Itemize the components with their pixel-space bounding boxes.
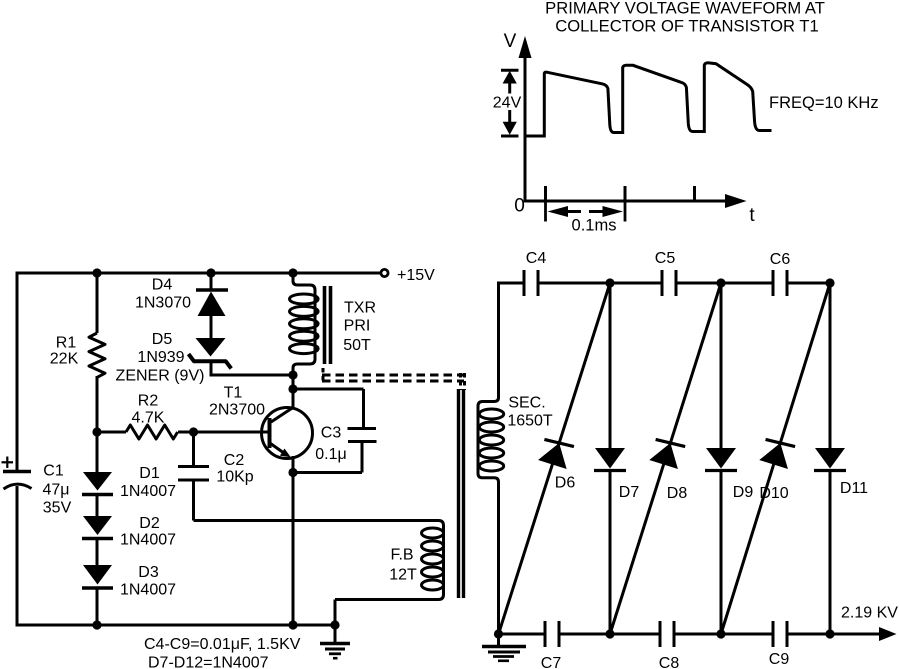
svg-text:D9: D9 bbox=[733, 484, 754, 501]
svg-text:1N4007: 1N4007 bbox=[120, 532, 176, 549]
svg-text:C7: C7 bbox=[541, 655, 562, 669]
svg-text:35V: 35V bbox=[43, 500, 72, 517]
svg-text:12T: 12T bbox=[389, 567, 417, 584]
svg-text:D4: D4 bbox=[152, 277, 173, 294]
svg-text:D7: D7 bbox=[619, 484, 640, 501]
svg-text:0.1μ: 0.1μ bbox=[315, 446, 346, 463]
svg-text:C1: C1 bbox=[43, 463, 64, 480]
svg-text:1N4007: 1N4007 bbox=[120, 582, 176, 599]
svg-text:24V: 24V bbox=[493, 94, 522, 111]
svg-text:2N3700: 2N3700 bbox=[209, 402, 265, 419]
svg-text:4.7K: 4.7K bbox=[132, 410, 165, 427]
svg-text:47μ: 47μ bbox=[42, 482, 69, 499]
svg-text:C4-C9=0.01μF, 1.5KV: C4-C9=0.01μF, 1.5KV bbox=[144, 636, 301, 653]
svg-text:PRI: PRI bbox=[344, 318, 371, 335]
svg-text:D10: D10 bbox=[759, 485, 788, 502]
svg-text:D2: D2 bbox=[139, 515, 160, 532]
svg-text:0: 0 bbox=[514, 196, 525, 217]
svg-text:C8: C8 bbox=[659, 655, 680, 669]
svg-text:COLLECTOR OF TRANSISTOR T1: COLLECTOR OF TRANSISTOR T1 bbox=[555, 17, 818, 36]
svg-text:C5: C5 bbox=[655, 250, 676, 267]
svg-text:2.19 KV: 2.19 KV bbox=[841, 605, 898, 622]
svg-text:C3: C3 bbox=[321, 425, 342, 442]
svg-text:D7-D12=1N4007: D7-D12=1N4007 bbox=[148, 655, 269, 669]
svg-text:10Kp: 10Kp bbox=[216, 469, 253, 486]
svg-text:FREQ=10 KHz: FREQ=10 KHz bbox=[769, 94, 879, 112]
svg-text:R2: R2 bbox=[138, 393, 159, 410]
svg-text:ZENER (9V): ZENER (9V) bbox=[116, 368, 205, 385]
svg-text:T1: T1 bbox=[224, 385, 243, 402]
svg-text:PRIMARY VOLTAGE WAVEFORM AT: PRIMARY VOLTAGE WAVEFORM AT bbox=[545, 0, 825, 18]
svg-text:1N939: 1N939 bbox=[137, 349, 184, 366]
svg-text:22K: 22K bbox=[50, 351, 79, 368]
svg-text:C4: C4 bbox=[526, 250, 547, 267]
svg-text:C2: C2 bbox=[224, 452, 245, 469]
svg-text:D5: D5 bbox=[152, 331, 173, 348]
svg-text:D8: D8 bbox=[667, 485, 688, 502]
svg-text:SEC.: SEC. bbox=[508, 395, 545, 412]
svg-text:D6: D6 bbox=[555, 475, 576, 492]
svg-text:0.1ms: 0.1ms bbox=[572, 217, 617, 235]
svg-text:F.B: F.B bbox=[390, 547, 413, 564]
svg-text:D3: D3 bbox=[138, 564, 159, 581]
svg-text:50T: 50T bbox=[343, 337, 371, 354]
svg-text:1650T: 1650T bbox=[507, 413, 553, 430]
svg-text:+15V: +15V bbox=[397, 267, 435, 284]
svg-text:C9: C9 bbox=[769, 651, 790, 668]
svg-text:1N3070: 1N3070 bbox=[135, 295, 191, 312]
svg-text:C6: C6 bbox=[770, 251, 791, 268]
svg-text:t: t bbox=[749, 205, 755, 226]
svg-text:D11: D11 bbox=[840, 480, 868, 497]
svg-text:1N4007: 1N4007 bbox=[120, 483, 176, 500]
svg-text:D1: D1 bbox=[139, 465, 160, 482]
svg-text:TXR: TXR bbox=[344, 300, 376, 317]
svg-text:V: V bbox=[504, 31, 517, 52]
svg-text:R1: R1 bbox=[56, 335, 77, 352]
